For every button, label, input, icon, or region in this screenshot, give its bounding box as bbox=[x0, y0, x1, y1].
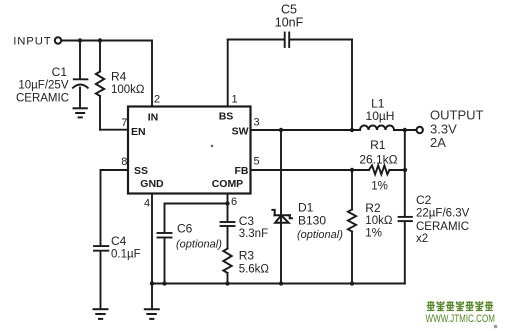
pin 8 bbox=[121, 156, 127, 168]
wire pin2 stub (IN) bbox=[151, 41, 153, 107]
IC U1 regulator box bbox=[128, 107, 251, 194]
svg-text:8: 8 bbox=[121, 156, 127, 168]
svg-text:R4: R4 bbox=[111, 69, 127, 83]
wire output branch down bbox=[404, 130, 406, 217]
pin 6 bbox=[231, 196, 237, 208]
svg-text:WWW.JTMIC.COM: WWW.JTMIC.COM bbox=[426, 313, 496, 325]
svg-text:3.3nF: 3.3nF bbox=[239, 228, 268, 240]
svg-text:10µH: 10µH bbox=[366, 109, 395, 123]
svg-text:FB: FB bbox=[235, 165, 249, 177]
svg-text:(optional): (optional) bbox=[176, 239, 222, 251]
svg-text:0.1µF: 0.1µF bbox=[111, 249, 141, 261]
svg-text:6: 6 bbox=[231, 196, 237, 208]
stray mark bottom-right bbox=[494, 325, 498, 329]
wire FB line bbox=[251, 169, 369, 171]
label C1 value bbox=[16, 65, 69, 105]
svg-text:4: 4 bbox=[144, 197, 150, 209]
label L1 value bbox=[366, 97, 395, 123]
svg-text:C5: C5 bbox=[281, 3, 297, 17]
svg-text:10µF/25V: 10µF/25V bbox=[18, 80, 68, 92]
pin label EN bbox=[131, 126, 146, 138]
pin 2 bbox=[154, 94, 160, 106]
diode D1 (B130 schottky) bbox=[272, 130, 292, 284]
node junction COMP bbox=[225, 201, 229, 205]
svg-text:B130: B130 bbox=[298, 214, 326, 228]
label C4 value bbox=[111, 234, 141, 261]
label C3 value bbox=[239, 214, 268, 240]
svg-text:22µF/6.3V: 22µF/6.3V bbox=[416, 208, 470, 220]
wire COMP to C6 bbox=[165, 203, 228, 205]
wire R4 to EN bbox=[100, 129, 128, 131]
pin 7 bbox=[121, 117, 127, 129]
svg-text:R1: R1 bbox=[370, 138, 386, 152]
capacitor C3 bbox=[221, 204, 235, 249]
inductor L1 bbox=[360, 126, 394, 131]
wire bottom ground rail bbox=[152, 283, 405, 285]
pin label BS bbox=[219, 110, 234, 122]
resistor R3 bbox=[223, 249, 231, 284]
svg-text:26.1kΩ: 26.1kΩ bbox=[359, 152, 397, 166]
pin label IN bbox=[148, 112, 159, 124]
svg-text:EN: EN bbox=[131, 126, 146, 138]
capacitor C4 bbox=[94, 170, 108, 309]
svg-text:100kΩ: 100kΩ bbox=[111, 84, 145, 96]
wire BS stub up bbox=[227, 40, 229, 107]
node OUTPUT terminal bbox=[417, 127, 423, 133]
pin label FB bbox=[235, 165, 249, 177]
label R3 value bbox=[239, 248, 270, 275]
label R2 value bbox=[365, 201, 393, 239]
wire COMP stub down bbox=[227, 194, 229, 204]
svg-text:1%: 1% bbox=[365, 227, 382, 239]
label INPUT bbox=[13, 35, 51, 47]
pin 4 bbox=[144, 197, 150, 209]
label OUTPUT bbox=[430, 108, 484, 150]
node junction R4 bbox=[98, 38, 102, 42]
label R4 value bbox=[111, 69, 145, 96]
node junction rail/D1 bbox=[279, 281, 283, 285]
svg-text:10kΩ: 10kΩ bbox=[365, 215, 393, 227]
node junction C1 bbox=[78, 38, 82, 42]
svg-text:C1: C1 bbox=[52, 65, 68, 79]
node junction output/C2 bbox=[403, 128, 407, 132]
pin label SW bbox=[232, 126, 249, 138]
svg-text:10nF: 10nF bbox=[275, 16, 304, 30]
svg-text:3: 3 bbox=[254, 116, 260, 128]
node junction D1/SW bbox=[279, 128, 283, 132]
svg-text:1: 1 bbox=[232, 94, 238, 106]
svg-text:C2: C2 bbox=[416, 193, 432, 207]
svg-text:IN: IN bbox=[148, 112, 159, 124]
svg-text:R2: R2 bbox=[365, 201, 381, 215]
wire L1 to output terminal bbox=[394, 129, 416, 131]
capacitor C6 bbox=[158, 204, 172, 284]
watermark url bbox=[426, 313, 496, 325]
svg-text:CERAMIC: CERAMIC bbox=[416, 221, 469, 233]
svg-text:BS: BS bbox=[219, 110, 234, 122]
resistor R2 bbox=[348, 170, 356, 284]
wire C5 right down to SW bbox=[351, 40, 353, 131]
svg-text:C6: C6 bbox=[177, 222, 193, 236]
resistor R4 bbox=[96, 41, 104, 130]
node junction rail/R3 bbox=[225, 281, 229, 285]
ground below rail bbox=[145, 284, 159, 319]
ground below C1 bbox=[74, 108, 87, 117]
svg-text:SS: SS bbox=[134, 165, 148, 177]
node junction rail/C6 bbox=[162, 281, 166, 285]
label C5 value bbox=[275, 3, 304, 30]
stray mark artifact bbox=[211, 145, 213, 147]
svg-text:2A: 2A bbox=[430, 135, 446, 150]
capacitor C1 bbox=[73, 41, 88, 109]
svg-text:2: 2 bbox=[154, 94, 160, 106]
pin 3 bbox=[254, 116, 260, 128]
svg-text:D1: D1 bbox=[298, 200, 314, 214]
node junction C5/SW bbox=[350, 128, 354, 132]
capacitor C2 bbox=[399, 217, 412, 284]
label R1 value bbox=[359, 138, 397, 193]
label C2 value bbox=[416, 193, 470, 245]
svg-text:R3: R3 bbox=[239, 248, 255, 262]
node INPUT terminal bbox=[55, 37, 61, 43]
svg-text:1%: 1% bbox=[371, 180, 388, 192]
pin label GND bbox=[140, 178, 164, 190]
svg-text:5.6kΩ: 5.6kΩ bbox=[239, 264, 270, 276]
label C6 value bbox=[176, 222, 222, 251]
wire input top rail bbox=[62, 40, 152, 42]
pin 5 bbox=[254, 156, 260, 168]
svg-text:(optional): (optional) bbox=[297, 229, 343, 241]
resistor R1 bbox=[369, 165, 405, 174]
svg-text:x2: x2 bbox=[416, 233, 428, 245]
ground below C4 bbox=[94, 309, 108, 319]
svg-text:C4: C4 bbox=[111, 234, 127, 248]
pin label COMP bbox=[212, 178, 244, 190]
svg-text:CERAMIC: CERAMIC bbox=[16, 93, 69, 105]
svg-text:5: 5 bbox=[254, 156, 260, 168]
svg-text:7: 7 bbox=[121, 117, 127, 129]
svg-text:GND: GND bbox=[140, 178, 164, 190]
pin 1 bbox=[232, 94, 238, 106]
wire GND pin down bbox=[151, 194, 153, 284]
label D1 value bbox=[297, 200, 343, 241]
node junction rail/R2 bbox=[350, 281, 354, 285]
svg-text:SW: SW bbox=[232, 126, 249, 138]
node junction R1/C2 bbox=[403, 168, 407, 172]
svg-text:C3: C3 bbox=[239, 214, 255, 228]
svg-text:COMP: COMP bbox=[212, 178, 244, 190]
capacitor C5 bbox=[228, 33, 352, 48]
pin label SS bbox=[134, 165, 148, 177]
node junction R2/FB bbox=[350, 168, 354, 172]
node junction rail/GND bbox=[150, 281, 154, 285]
wire SW to output bbox=[251, 129, 361, 131]
wire SS to C4 bbox=[101, 169, 129, 171]
svg-text:INPUT: INPUT bbox=[13, 35, 51, 47]
